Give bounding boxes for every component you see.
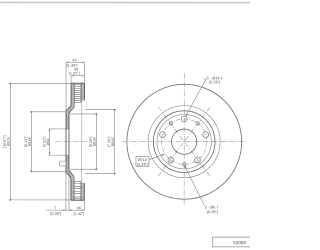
svg-text:[2.52"]: [2.52"] [42, 137, 46, 147]
centre hole edges [48, 129, 69, 155]
hat step circle [157, 114, 211, 168]
svg-text:[0.26"]: [0.26"] [207, 210, 218, 214]
right plate inner end close [81, 100, 84, 183]
bolt hole right [203, 132, 209, 138]
axis centerline of section [55, 141, 88, 143]
dim Ø182 ring inner (right of section) [85, 109, 116, 175]
vent rib rungs top [74, 85, 81, 103]
friction ring outline [71, 83, 85, 200]
horizontal centerline [122, 141, 246, 143]
dim 42 overall width [66, 61, 84, 111]
dim Ø156 hat diameter (left) [31, 111, 66, 172]
bolt hole lower-right [195, 157, 201, 163]
svg-text:[5.28"]: [5.28"] [89, 137, 93, 147]
dim Ø134 hat inner (right of section) [70, 113, 97, 170]
svg-text:[7.16"]: [7.16"] [107, 137, 111, 147]
hat outer circle [153, 111, 215, 173]
small stud box on flange face [59, 161, 66, 166]
centre bore [172, 129, 197, 154]
svg-text:42: 42 [72, 58, 76, 62]
vent rib rungs bottom [74, 181, 81, 199]
svg-text:3 - Ø6.7: 3 - Ø6.7 [205, 205, 219, 209]
svg-text:Ø110: Ø110 [138, 158, 147, 162]
dim 26 ring width [71, 75, 84, 83]
svg-text:[10.87"]: [10.87"] [3, 136, 7, 148]
diagonal centerline 126-306 [158, 107, 210, 176]
svg-text:[4.33"]: [4.33"] [137, 163, 148, 167]
bolt hole top [181, 116, 187, 122]
bottom dims 7 and 36 [46, 169, 84, 211]
dim Ø64 centre hole [49, 129, 51, 155]
diagonal centerline 54-234 [158, 107, 210, 176]
svg-text:[6.14"]: [6.14"] [24, 137, 28, 147]
outer diameter circle [127, 84, 242, 199]
vent channel walls [74, 84, 81, 200]
bolt hole left [160, 132, 166, 138]
svg-text:Ø64: Ø64 [46, 138, 50, 145]
svg-text:Ø276: Ø276 [7, 137, 11, 146]
vertical centerline [183, 73, 185, 206]
boxed dim Ø110 bolt circle [136, 154, 165, 167]
small hole upper-left [169, 122, 172, 125]
svg-text:7: 7 [54, 206, 56, 210]
small hole upper-right [196, 122, 199, 125]
hat flange slab [66, 112, 69, 171]
leader 5-Ø14.3 [185, 79, 206, 117]
svg-text:Ø182: Ø182 [111, 137, 115, 146]
svg-text:Ø156: Ø156 [28, 137, 32, 146]
friction inner circle [148, 106, 220, 178]
bolt circle (dash-dot) [161, 119, 206, 164]
title box with part number [213, 237, 252, 247]
hat S-curve top [66, 105, 71, 112]
dim Ø276 outer diameter (far left) [9, 83, 70, 201]
hat S-curve bottom [66, 171, 71, 178]
small hole bottom [182, 163, 185, 166]
svg-text:[1.02"]: [1.02"] [69, 72, 80, 76]
hatching [66, 83, 85, 200]
top page border [0, 1, 250, 3]
svg-text:36: 36 [77, 206, 81, 210]
svg-text:[0.28"]: [0.28"] [50, 212, 61, 216]
svg-text:[0.56"]: [0.56"] [209, 80, 220, 84]
svg-text:53008: 53008 [233, 240, 246, 245]
svg-text:Ø134: Ø134 [93, 137, 97, 146]
bolt hole lower-left [168, 157, 174, 163]
svg-text:[1.42"]: [1.42"] [73, 212, 84, 216]
leader 3-Ø6.7 [184, 165, 204, 205]
inner faint vertical through hat opening [81, 100, 83, 183]
